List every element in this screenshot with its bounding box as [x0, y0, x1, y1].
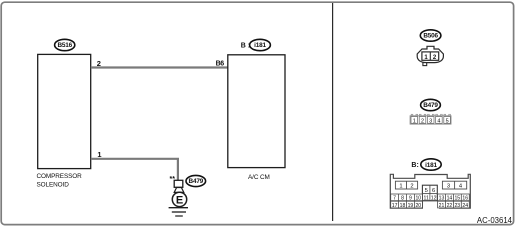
A/C CM box [228, 55, 285, 181]
svg-text:i181: i181 [254, 42, 266, 49]
svg-text:13: 13 [439, 196, 445, 202]
svg-text:14: 14 [447, 196, 453, 202]
svg-text:2: 2 [410, 184, 413, 190]
svg-text:24: 24 [462, 203, 468, 209]
connector label B506 (top right) [420, 30, 441, 41]
row2 pins 7-16 [391, 194, 470, 202]
connector B506 body (2-pin) [417, 46, 443, 65]
svg-text:21: 21 [439, 203, 445, 209]
svg-text:B6: B6 [216, 61, 225, 68]
svg-text:2: 2 [421, 118, 424, 124]
compressor solenoid box [37, 54, 91, 188]
wire pin1 to ground [91, 159, 178, 180]
svg-text:COMPRESSOR: COMPRESSOR [37, 173, 83, 180]
svg-text:B479: B479 [423, 102, 438, 109]
connector label B516 (above compressor solenoid) [55, 39, 75, 50]
svg-text:B :: B : [241, 42, 250, 49]
svg-text:B516: B516 [57, 42, 72, 49]
row3 pins 17-20 and 21-24 [391, 201, 470, 209]
svg-text:5: 5 [446, 118, 449, 124]
svg-text:B:: B: [411, 162, 418, 169]
svg-text:23: 23 [454, 203, 460, 209]
svg-text:22: 22 [447, 203, 453, 209]
connector B479 body (5-pin) [410, 114, 451, 124]
svg-text:2: 2 [97, 59, 101, 68]
connector label B479 (left) [186, 175, 206, 186]
ground connector square B479 [174, 180, 183, 187]
connector label B: i181 (bottom right) [411, 159, 441, 170]
row1 pins 3 4 [442, 181, 466, 189]
svg-text:1: 1 [399, 184, 402, 190]
svg-text:15: 15 [454, 196, 460, 202]
svg-text:17: 17 [392, 203, 398, 209]
svg-text:9: 9 [409, 196, 412, 202]
svg-text:19: 19 [408, 203, 414, 209]
svg-text:B479: B479 [189, 178, 204, 185]
svg-text:4: 4 [437, 118, 440, 124]
svg-text:SOLENOID: SOLENOID [37, 181, 70, 188]
middle box pins 5 6 [422, 185, 437, 201]
svg-text:5: 5 [425, 188, 428, 194]
svg-text:B506: B506 [423, 33, 438, 40]
panel divider [332, 3, 334, 221]
ground neck [174, 188, 184, 193]
connector i181 body (24-pin) [390, 174, 470, 209]
svg-text:16: 16 [462, 196, 468, 202]
ground symbol E [169, 192, 188, 216]
svg-text:6: 6 [432, 188, 435, 194]
svg-text:20: 20 [415, 203, 421, 209]
svg-text:18: 18 [400, 203, 406, 209]
svg-text:A/C CM: A/C CM [248, 174, 270, 181]
svg-text:E: E [176, 194, 183, 206]
svg-text:1: 1 [413, 118, 416, 124]
svg-text:11: 11 [424, 196, 429, 202]
svg-text:AC-03614: AC-03614 [477, 216, 513, 225]
svg-text:3: 3 [447, 184, 450, 190]
connector label B: i181 (above A/C CM) [241, 39, 271, 50]
svg-text:7: 7 [393, 196, 396, 202]
svg-text:1: 1 [97, 150, 101, 159]
svg-text:10: 10 [415, 196, 421, 202]
svg-text:12: 12 [431, 196, 437, 202]
row1 pins 1 2 [395, 181, 417, 189]
wire pin2 to A/C CM [91, 66, 228, 68]
svg-text:8: 8 [401, 196, 404, 202]
connector label B479 (right) [421, 99, 441, 110]
svg-text:i181: i181 [425, 162, 437, 169]
svg-text:3: 3 [429, 118, 432, 124]
